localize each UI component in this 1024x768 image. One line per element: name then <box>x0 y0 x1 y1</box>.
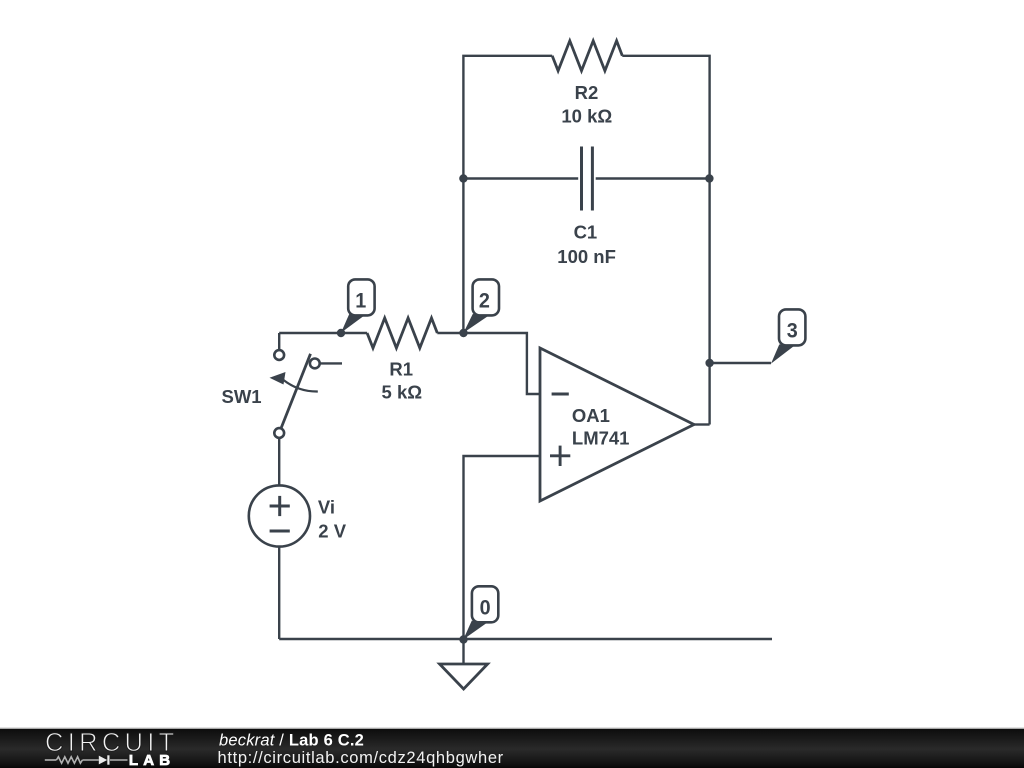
svg-text:2 V: 2 V <box>318 520 346 541</box>
svg-text:http://circuitlab.com/cdz24qhb: http://circuitlab.com/cdz24qhbgwher <box>218 749 504 767</box>
svg-text:OA1: OA1 <box>572 405 610 426</box>
svg-text:10 kΩ: 10 kΩ <box>561 106 612 127</box>
svg-text:0: 0 <box>480 596 491 619</box>
svg-text:LM741: LM741 <box>572 428 630 449</box>
svg-text:C1: C1 <box>574 222 598 243</box>
svg-text:R2: R2 <box>575 82 599 103</box>
svg-text:5 kΩ: 5 kΩ <box>382 382 423 403</box>
svg-text:100 nF: 100 nF <box>557 246 616 267</box>
svg-text:SW1: SW1 <box>222 386 262 407</box>
svg-text:2: 2 <box>479 289 490 312</box>
svg-text:Vi: Vi <box>318 496 335 517</box>
svg-text:3: 3 <box>787 319 798 342</box>
svg-text:beckrat / Lab 6 C.2: beckrat / Lab 6 C.2 <box>219 731 364 749</box>
svg-text:LAB: LAB <box>129 752 175 768</box>
svg-text:R1: R1 <box>389 359 413 380</box>
svg-text:1: 1 <box>355 289 366 312</box>
